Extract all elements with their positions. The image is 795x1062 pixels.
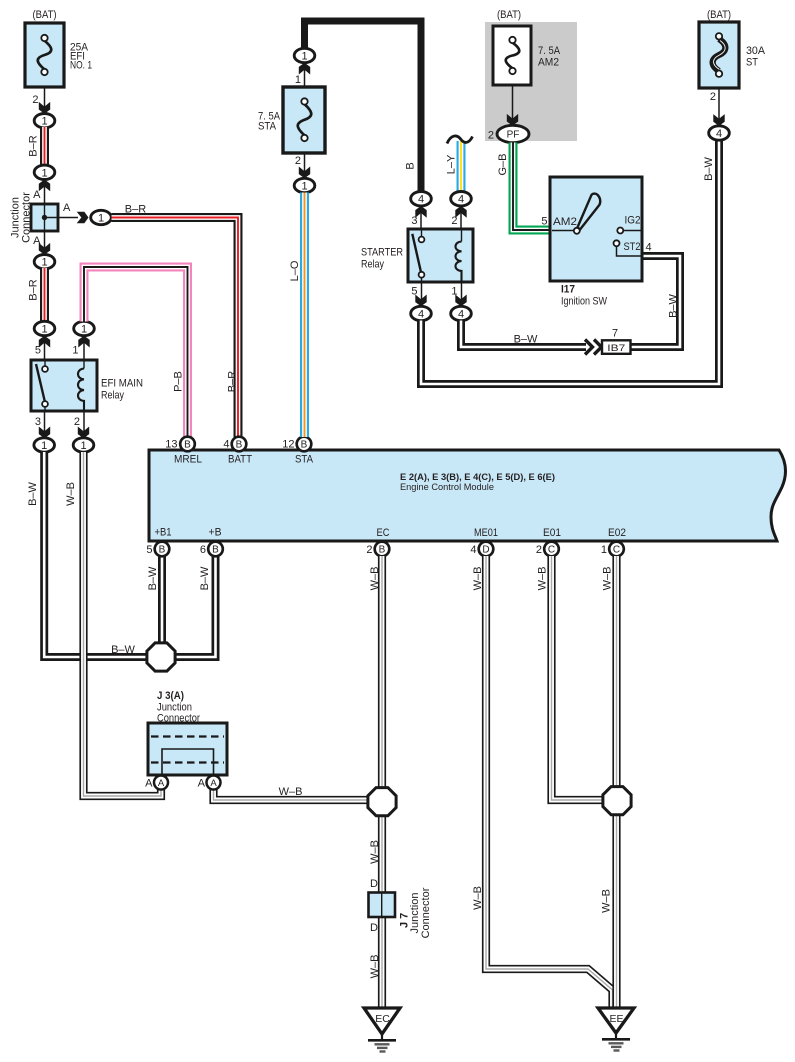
connector oval 1 above EFI relay pin 5 [34, 321, 55, 335]
svg-text:E01: E01 [543, 527, 561, 539]
svg-text:B: B [236, 440, 243, 451]
connector oval PF [497, 125, 529, 142]
wire from 25A fuse to connector 1 [44, 87, 46, 114]
wire B-R branch to ECM BATT pin [112, 218, 239, 438]
svg-text:B: B [301, 440, 308, 451]
wire W-B ME01 to EE ground [486, 556, 613, 1008]
svg-text:B–R: B–R [27, 279, 39, 300]
junction connector node dot [42, 215, 47, 220]
svg-text:A: A [198, 778, 206, 790]
svg-text:4: 4 [458, 194, 464, 206]
EFI relay coil [83, 360, 85, 369]
svg-text:B: B [379, 545, 386, 556]
J3 inner cell outline [162, 749, 214, 775]
svg-text:IG2: IG2 [625, 215, 641, 227]
svg-text:1: 1 [301, 180, 307, 192]
svg-text:13: 13 [165, 439, 177, 451]
svg-text:B–R: B–R [226, 371, 238, 392]
connector IB7 [602, 340, 631, 354]
wire W-B E02 to EE ground [612, 556, 620, 1008]
svg-text:5: 5 [146, 544, 152, 556]
svg-text:(BAT): (BAT) [707, 9, 731, 21]
junction connector J7 box [369, 893, 396, 918]
stub and arrow EFI relay pin 3 [44, 411, 46, 438]
ignition key wedge [577, 194, 600, 230]
oval 1 above EFI relay pin 1 [83, 335, 85, 360]
svg-text:5: 5 [35, 345, 41, 357]
svg-text:L–Y: L–Y [445, 154, 457, 174]
wire oval to junction connector square [44, 179, 46, 204]
arrow into PF oval [507, 114, 518, 126]
ground EE triangle [598, 1008, 634, 1033]
svg-text:Relay: Relay [361, 259, 384, 271]
ground EC triangle [364, 1008, 400, 1034]
svg-text:W–B: W–B [369, 567, 381, 591]
svg-text:A: A [158, 778, 165, 789]
svg-text:W–B: W–B [600, 889, 612, 913]
svg-text:IB7: IB7 [607, 343, 625, 354]
relay STARTER box [408, 229, 473, 282]
fuse 7.5A AM2 element [506, 43, 520, 69]
arrow into oval below STA fuse [299, 167, 310, 179]
starter relay switch blade [421, 229, 423, 237]
svg-text:B: B [404, 162, 416, 169]
svg-text:A: A [210, 778, 217, 789]
svg-text:Engine Control Module: Engine Control Module [400, 482, 494, 492]
svg-text:B–W: B–W [147, 566, 159, 590]
oval 1 below STA fuse [294, 178, 315, 192]
svg-text:C: C [548, 545, 555, 556]
oval 1 above STA fuse [294, 48, 315, 62]
svg-text:W–B: W–B [369, 840, 381, 864]
wire L-O STA fuse to ECM STA pin [300, 193, 309, 438]
svg-text:2: 2 [710, 91, 716, 103]
svg-text:W–B: W–B [65, 482, 77, 506]
svg-text:(BAT): (BAT) [497, 9, 521, 21]
svg-text:ST: ST [746, 57, 758, 69]
junction connector J3(A) box [148, 723, 227, 775]
svg-text:E02: E02 [608, 527, 626, 539]
oval 1 below EFI relay pin 2 [73, 438, 94, 452]
svg-text:2: 2 [451, 215, 457, 227]
svg-text:W–B: W–B [472, 886, 484, 910]
fusible link 30A ST element [713, 39, 726, 71]
svg-text:MREL: MREL [174, 454, 202, 466]
svg-text:1: 1 [295, 74, 301, 86]
oval 4 below starter relay pin 1 [451, 306, 472, 320]
svg-text:4: 4 [716, 128, 722, 140]
svg-text:12: 12 [282, 439, 294, 451]
svg-text:BATT: BATT [228, 454, 252, 466]
svg-text:W–B: W–B [279, 786, 303, 798]
svg-text:+B1: +B1 [155, 527, 172, 539]
svg-text:7. 5A: 7. 5A [538, 45, 561, 57]
svg-text:1: 1 [41, 257, 47, 269]
svg-text:STA: STA [258, 121, 277, 133]
svg-text:5: 5 [541, 216, 547, 228]
AM2 contact [574, 228, 580, 234]
svg-text:EE: EE [609, 1013, 623, 1025]
J3 dashed bus lines [151, 735, 224, 737]
svg-text:W–B: W–B [601, 567, 613, 591]
svg-text:Ignition SW: Ignition SW [561, 296, 608, 308]
oval 4 above starter relay pin 2 [451, 192, 472, 206]
connector oval 4 below 30A ST [709, 126, 730, 140]
svg-text:A: A [33, 189, 41, 201]
svg-text:W–B: W–B [369, 955, 381, 979]
break squiggle on L-Y wire [447, 136, 473, 144]
wire B-W starter pin5 to 30A ST fuse [421, 140, 719, 384]
fuse 25A EFI NO.1 box [25, 23, 64, 87]
svg-text:1: 1 [41, 323, 47, 335]
svg-text:30A: 30A [746, 45, 766, 57]
fuse 7.5A STA element [298, 104, 312, 135]
junction octagon center [368, 788, 396, 816]
stub and arrow starter pin 5 [421, 282, 423, 306]
svg-text:B: B [159, 545, 166, 556]
svg-text:P–B: P–B [172, 371, 184, 392]
wire B-W relay pin3 to ground octagon [44, 452, 150, 657]
svg-text:B–W: B–W [703, 156, 715, 180]
svg-text:(BAT): (BAT) [33, 9, 57, 21]
svg-text:A: A [145, 778, 153, 790]
svg-text:2: 2 [488, 130, 494, 142]
arrow into connector 1 [39, 102, 50, 114]
svg-text:NO. 1: NO. 1 [70, 60, 92, 72]
chevrons into IB7 [585, 340, 602, 355]
junction octagon right [603, 787, 631, 815]
stub and arrow starter pin 1 [461, 282, 463, 306]
svg-text:Relay: Relay [101, 390, 124, 402]
svg-text:1: 1 [98, 212, 104, 224]
stub and arrow EFI relay pin 2 [83, 411, 85, 438]
svg-text:3: 3 [411, 215, 417, 227]
oval 4 above starter relay pin 3 [411, 192, 432, 206]
svg-text:1: 1 [41, 116, 47, 128]
arrow into oval 4 below 30A ST [713, 114, 724, 126]
wire B-W IB7 to ignition ST2 [631, 256, 681, 347]
starter relay coil [461, 229, 463, 242]
junction connector square [31, 204, 58, 231]
junction octagon B-W [147, 643, 175, 671]
ST2 contact and line [614, 240, 620, 246]
svg-text:4: 4 [418, 194, 424, 206]
svg-text:ST2: ST2 [624, 241, 641, 253]
svg-text:I17: I17 [561, 284, 575, 296]
svg-text:1: 1 [601, 544, 607, 556]
svg-text:4: 4 [646, 242, 652, 254]
wire W-B ECM EC pin down through J7 [378, 556, 386, 893]
svg-text:2: 2 [32, 94, 38, 106]
ground EE stem and bars [615, 1033, 617, 1039]
svg-text:G–B: G–B [497, 153, 509, 175]
ignition switch I17 box [550, 177, 642, 281]
svg-text:4: 4 [470, 544, 476, 556]
svg-text:+B: +B [209, 527, 222, 539]
wire B-R junction to EFI main relay [40, 268, 49, 322]
svg-text:EFI MAIN: EFI MAIN [101, 378, 143, 390]
wire L-Y to starter relay coil [457, 141, 466, 192]
svg-text:B–W: B–W [111, 644, 135, 656]
svg-text:4: 4 [223, 439, 229, 451]
fuse 30A ST box [699, 22, 739, 88]
svg-text:4: 4 [458, 308, 464, 320]
svg-text:1: 1 [41, 167, 47, 179]
svg-text:W–B: W–B [472, 567, 484, 591]
fuse 7.5A AM2 box [493, 26, 531, 85]
connector oval 1 below junction connector [34, 255, 55, 269]
svg-text:3: 3 [35, 416, 41, 428]
arrow up into oval above STA fuse [299, 63, 310, 75]
svg-text:W–B: W–B [536, 567, 548, 591]
wire P-B relay pin1 to ECM MREL [84, 267, 188, 437]
svg-text:B–W: B–W [667, 293, 679, 317]
svg-text:1: 1 [72, 345, 78, 357]
svg-text:J 3(A): J 3(A) [157, 690, 184, 702]
svg-text:B: B [184, 440, 191, 451]
oval 1 below EFI relay pin 3 [34, 438, 55, 452]
wire junction connector to right oval [45, 217, 79, 219]
svg-text:4: 4 [418, 308, 424, 320]
fuse 25A EFI NO.1 element [38, 41, 52, 70]
arrow up into oval pin2 [455, 206, 466, 218]
svg-text:2: 2 [536, 544, 542, 556]
gray battery block behind AM2 fuse [485, 22, 577, 141]
arrow right into oval 1 [77, 212, 89, 223]
relay EFI MAIN box [31, 360, 97, 411]
svg-text:6: 6 [200, 544, 206, 556]
svg-text:B–W: B–W [199, 566, 211, 590]
svg-text:PF: PF [507, 130, 520, 141]
wire W-B E01 to octagon [552, 556, 611, 800]
svg-text:EC: EC [375, 1013, 390, 1025]
svg-text:1: 1 [41, 440, 47, 452]
IG2 contact and line [617, 228, 623, 234]
svg-text:1: 1 [80, 440, 86, 452]
AM2 contact line [552, 230, 574, 232]
svg-text:B–W: B–W [514, 334, 538, 346]
arrow down into oval [39, 243, 50, 255]
connector oval 1 above junction connector [34, 165, 55, 179]
connector oval 1 below 25A fuse [34, 114, 55, 128]
svg-text:2: 2 [295, 155, 301, 167]
EFI relay switch blade [44, 360, 46, 366]
svg-text:AM2: AM2 [553, 216, 577, 228]
arrow up into oval pin3 [415, 206, 426, 218]
wire AM2 fuse to PF oval [512, 85, 514, 126]
oval 4 below starter relay pin 5 [411, 306, 432, 320]
svg-text:Connector: Connector [420, 887, 432, 938]
wire B-W starter pin1 to IB7 [461, 321, 586, 348]
connector oval 1 on branch to BATT [91, 210, 112, 224]
wire W-B J3 right pin to octagon [214, 789, 376, 800]
wire B-W ECM +B1 to octagon [158, 556, 166, 650]
svg-text:EC: EC [377, 527, 390, 539]
svg-text:D: D [370, 878, 378, 890]
svg-text:2: 2 [74, 416, 80, 428]
ECM box E2(A)..E6(E) Engine Control Module [149, 450, 786, 541]
svg-text:B–R: B–R [27, 135, 39, 156]
svg-text:Connector: Connector [20, 192, 32, 243]
svg-text:STARTER: STARTER [361, 247, 403, 259]
svg-text:B–W: B–W [27, 481, 39, 505]
svg-text:D: D [370, 922, 378, 934]
svg-text:1: 1 [81, 323, 87, 335]
fuse 7.5A STA box [283, 87, 325, 153]
arrow up into oval 1 [39, 180, 50, 192]
svg-text:AM2: AM2 [538, 57, 559, 69]
ground EC stem and bars [381, 1034, 383, 1040]
wire G-B PF to ignition AM2 [513, 143, 552, 231]
arrow up into oval above relay [39, 336, 50, 348]
svg-text:1: 1 [301, 50, 307, 62]
svg-text:ME01: ME01 [474, 527, 498, 539]
svg-text:C: C [613, 545, 620, 556]
wire junction square down to oval [44, 231, 46, 255]
svg-text:7: 7 [612, 328, 618, 340]
svg-text:2: 2 [366, 544, 372, 556]
svg-text:D: D [482, 545, 489, 556]
svg-text:A: A [63, 202, 71, 214]
svg-text:STA: STA [295, 454, 314, 466]
svg-text:L–O: L–O [289, 260, 301, 281]
wire B-W ECM +B to octagon [168, 556, 216, 657]
wire B thick from STA fuse to starter relay [305, 21, 422, 192]
wire W-B relay pin2 down to J3 connector [84, 452, 162, 796]
svg-text:B: B [212, 545, 219, 556]
wire B-R fuse to junction connector [40, 127, 49, 166]
